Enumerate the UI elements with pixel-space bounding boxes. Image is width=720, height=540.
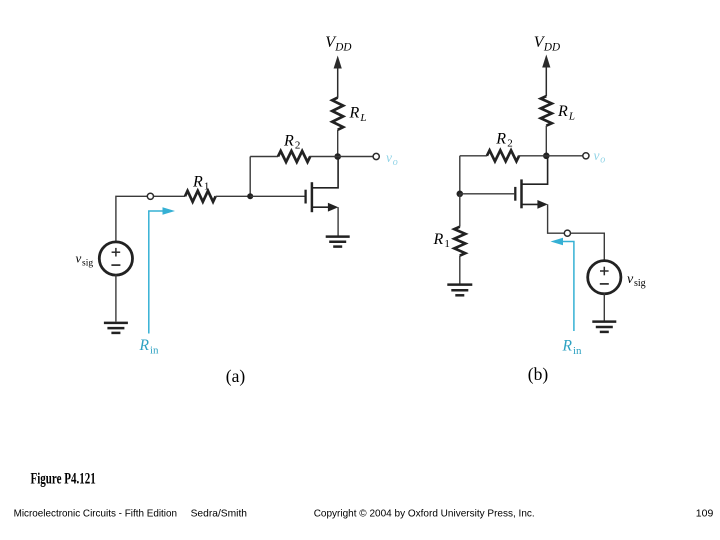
svg-text:L: L	[568, 111, 575, 123]
label R2 (b)	[495, 130, 512, 149]
svg-text:(b): (b)	[528, 364, 549, 384]
source vsig circle (a)	[99, 242, 132, 275]
input terminal circle (b)	[564, 230, 570, 236]
transistor Q (b) NMOS	[515, 157, 548, 209]
Rin arrow (a)	[149, 207, 175, 333]
svg-text:L: L	[359, 112, 366, 124]
label VDD (a)	[325, 34, 351, 54]
label R2 (a)	[283, 133, 300, 152]
wire R2 left lead (a)	[250, 156, 278, 158]
wire vsig to ground (b)	[603, 293, 605, 320]
svg-text:in: in	[150, 344, 159, 356]
svg-text:sig: sig	[634, 278, 646, 289]
svg-text:(a): (a)	[226, 366, 246, 386]
svg-text:R: R	[283, 133, 294, 150]
svg-text:R: R	[192, 173, 203, 190]
svg-text:R: R	[495, 130, 506, 147]
wire R2 left vertical down to gate node (a)	[249, 157, 251, 197]
resistor R1 (a)	[185, 191, 216, 202]
wire R2 left lead (b)	[460, 155, 487, 157]
wire R2 right lead to drain node (b)	[518, 155, 546, 157]
svg-text:Microelectronic Circuits - Fif: Microelectronic Circuits - Fifth Edition	[14, 508, 178, 520]
svg-text:o: o	[600, 155, 605, 166]
ground under vsig (a)	[104, 323, 128, 333]
node gate dot (a)	[247, 193, 253, 199]
source vsig circle (b)	[588, 261, 621, 294]
wire gate node to MOSFET gate (b)	[460, 193, 514, 195]
transistor Q (a) NMOS	[306, 159, 339, 212]
label RL (b)	[557, 103, 575, 123]
output terminal circle (b)	[583, 153, 589, 159]
ground under vsig (b)	[592, 322, 616, 332]
label RL (a)	[349, 104, 367, 124]
wire source to ground (a)	[337, 207, 339, 236]
resistor R2 (b)	[487, 150, 519, 161]
label vsig (b)	[627, 272, 646, 289]
node drain dot (a)	[334, 153, 341, 160]
svg-text:1: 1	[444, 238, 450, 250]
label vo (a)	[386, 150, 398, 168]
svg-text:Figure P4.121: Figure P4.121	[31, 470, 96, 487]
wire R1 to ground (b)	[459, 256, 461, 284]
wire vsig to ground (a)	[115, 275, 117, 322]
svg-text:DD: DD	[334, 42, 351, 54]
Rin arrow (b)	[551, 238, 574, 331]
wire R2 left vertical to gate node (b)	[459, 156, 461, 194]
wire source down to terminal wire (b)	[548, 204, 565, 233]
VDD supply arrow (a)	[334, 56, 342, 98]
wire RL bottom to drain node (b)	[545, 126, 547, 157]
svg-text:2: 2	[507, 137, 513, 149]
svg-text:R: R	[349, 104, 360, 121]
svg-text:in: in	[573, 345, 582, 357]
svg-text:R: R	[433, 231, 444, 248]
svg-text:2: 2	[295, 140, 301, 152]
ground under R1 (b)	[447, 285, 472, 296]
wire gate node down to R1 (b)	[459, 194, 461, 227]
svg-text:v: v	[594, 148, 600, 163]
plus sign inside vsig (b)	[600, 267, 609, 276]
wire R1 to gate node (a)	[216, 195, 251, 197]
resistor RL (a)	[332, 98, 343, 130]
label R1 (b)	[433, 231, 450, 250]
node drain dot (b)	[543, 153, 550, 160]
wire RL bottom to drain node (a)	[337, 130, 339, 158]
wire node to output terminal (b)	[546, 155, 583, 157]
VDD supply arrow (b)	[542, 55, 550, 97]
label vo (b)	[594, 148, 606, 166]
svg-text:DD: DD	[543, 42, 560, 54]
svg-text:R: R	[562, 338, 573, 355]
svg-text:v: v	[76, 251, 82, 266]
svg-text:o: o	[393, 157, 398, 168]
label Rin (a)	[139, 337, 160, 356]
resistor R2 (a)	[278, 151, 310, 162]
wire terminal to R1 (a)	[154, 195, 185, 197]
svg-text:109: 109	[696, 508, 714, 520]
wire R2 right lead to drain node (a)	[309, 156, 337, 158]
resistor RL (b)	[541, 96, 552, 126]
wire gate node to MOSFET gate (a)	[250, 195, 304, 197]
minus sign inside vsig (b)	[600, 283, 609, 285]
wire node to output terminal (a)	[338, 156, 373, 158]
svg-text:Copyright © 2004 by Oxford Uni: Copyright © 2004 by Oxford University Pr…	[314, 508, 535, 520]
node gate dot (b)	[457, 191, 464, 198]
svg-text:R: R	[557, 103, 568, 120]
svg-text:v: v	[627, 272, 634, 287]
ground under transistor (a)	[326, 237, 350, 247]
output terminal circle (a)	[373, 153, 379, 159]
resistor R1 (b)	[454, 227, 465, 256]
plus sign inside vsig (a)	[112, 248, 121, 257]
minus sign inside vsig (a)	[111, 264, 120, 266]
svg-text:R: R	[139, 337, 150, 354]
svg-text:1: 1	[204, 181, 210, 193]
svg-text:v: v	[386, 150, 392, 165]
svg-text:sig: sig	[82, 259, 93, 269]
input terminal circle (a)	[147, 193, 153, 199]
wire terminal to vsig (b)	[571, 233, 605, 261]
input wire from source terminal (a)	[116, 196, 147, 242]
label VDD (b)	[534, 34, 560, 54]
label Rin (b)	[562, 338, 583, 357]
label vsig (a)	[76, 251, 94, 269]
svg-text:Sedra/Smith: Sedra/Smith	[191, 508, 248, 520]
label R1 (a)	[192, 173, 209, 192]
